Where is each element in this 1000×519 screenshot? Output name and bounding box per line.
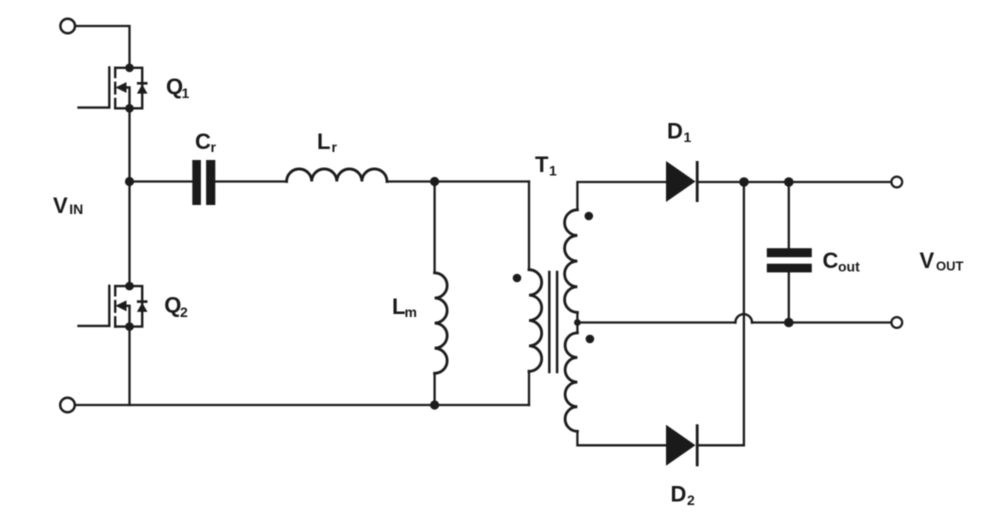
svg-text:L: L: [392, 294, 405, 319]
svg-text:D: D: [671, 482, 687, 507]
svg-text:2: 2: [180, 304, 188, 320]
svg-text:OUT: OUT: [936, 259, 964, 274]
svg-text:C: C: [195, 129, 211, 154]
svg-text:out: out: [838, 259, 860, 275]
svg-text:D: D: [667, 119, 683, 144]
svg-text:Q: Q: [164, 293, 181, 318]
svg-text:1: 1: [182, 85, 190, 101]
svg-text:1: 1: [549, 163, 557, 179]
svg-text:C: C: [823, 248, 839, 273]
svg-text:V: V: [920, 248, 935, 273]
svg-text:IN: IN: [69, 201, 83, 217]
svg-text:1: 1: [684, 129, 692, 145]
svg-text:L: L: [317, 129, 330, 154]
svg-text:r: r: [211, 139, 217, 155]
svg-text:m: m: [405, 304, 417, 320]
svg-text:V: V: [53, 193, 68, 218]
svg-text:T: T: [535, 152, 549, 177]
svg-text:2: 2: [687, 492, 695, 508]
svg-text:r: r: [332, 139, 338, 155]
